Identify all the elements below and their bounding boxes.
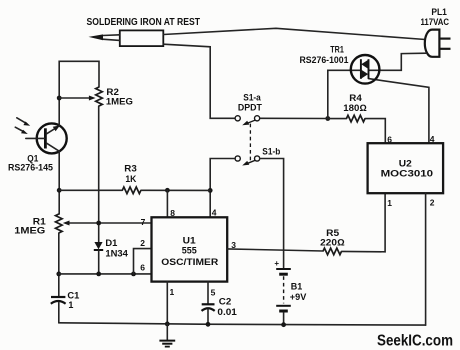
svg-text:MOC3010: MOC3010 [381, 169, 434, 179]
svg-text:C2: C2 [219, 296, 232, 306]
svg-text:2: 2 [430, 198, 435, 208]
svg-text:RS276-1001: RS276-1001 [300, 55, 349, 65]
svg-text:R4: R4 [349, 93, 362, 103]
wire: Q1 top to R2 bracket [59, 61, 99, 125]
svg-text:PL1: PL1 [431, 7, 447, 17]
capacitor C2 [202, 282, 215, 326]
switch S1-b [235, 156, 260, 166]
wire: R1 to C1 vertical [58, 233, 60, 297]
svg-text:D1: D1 [105, 238, 117, 248]
node wiper/D1 [96, 221, 101, 226]
wire: S1-a to junction [260, 117, 328, 119]
wire: pin 3 to R5 [227, 249, 323, 251]
svg-text:2: 2 [140, 238, 145, 248]
wire: iron bottom to S1-a left [163, 44, 235, 118]
node R2 wiper tap [57, 96, 62, 101]
light arrow 2 [15, 127, 27, 134]
wire: bottom ground rail [59, 323, 426, 325]
resistor R2 [96, 87, 103, 106]
ground [159, 324, 175, 347]
svg-text:+: + [274, 259, 279, 268]
wire: R2/D1 vertical [98, 106, 100, 242]
wire: pin 8 drop [166, 190, 168, 217]
resistor R5 [323, 193, 385, 255]
svg-text:8: 8 [170, 208, 175, 218]
plug PL1 [425, 30, 451, 57]
dashed gang link S1 [249, 124, 251, 163]
wire: TR1 gate to U2 pin 4 [369, 79, 429, 144]
svg-text:1: 1 [170, 287, 175, 297]
svg-text:+9V: +9V [290, 292, 307, 302]
svg-text:1: 1 [68, 300, 73, 310]
R2 wiper arrow [59, 96, 95, 101]
resistor R4 [328, 115, 386, 143]
resistor R1 [56, 214, 63, 233]
wire: U1 pin 1 down [166, 282, 168, 324]
svg-text:R3: R3 [124, 163, 137, 173]
svg-text:0.01: 0.01 [217, 307, 237, 317]
svg-text:4: 4 [430, 134, 435, 144]
triac TR1 [351, 55, 380, 84]
svg-text:R2: R2 [106, 87, 119, 97]
resistor R3 [59, 187, 210, 194]
svg-text:TR1: TR1 [330, 45, 344, 55]
svg-text:RS276-145: RS276-145 [8, 163, 53, 173]
svg-text:B1: B1 [291, 281, 303, 291]
svg-text:1MEG: 1MEG [14, 226, 45, 236]
wire: U2 pin 2 down [425, 193, 427, 325]
wire top: iron to plug PL1 [163, 28, 425, 39]
op-amp U2 MOC3010 box [368, 143, 444, 193]
svg-text:5: 5 [211, 287, 216, 297]
svg-text:6: 6 [387, 134, 392, 144]
wire: pin 6 rail [59, 273, 152, 275]
node junction S1a/R4/TR1 [325, 116, 330, 121]
wire: S1-b right to battery [260, 159, 284, 268]
svg-text:DPDT: DPDT [238, 102, 262, 112]
svg-text:220Ω: 220Ω [320, 238, 345, 248]
soldering iron body [89, 30, 164, 46]
svg-text:7: 7 [141, 217, 146, 227]
diode D1 [94, 242, 103, 274]
svg-text:OSC/TIMER: OSC/TIMER [161, 257, 219, 267]
node D1 bottom [96, 272, 101, 277]
svg-text:S1-a: S1-a [243, 92, 261, 102]
node battery bottom [281, 322, 286, 327]
wire: S1-b left to U1 pin 4 [210, 159, 235, 218]
wire: TR1 MT2 lead [328, 70, 361, 118]
node pin2 drop [131, 272, 136, 277]
node R3/S1b/pin4 [208, 188, 213, 193]
wire: TR1 MT1 to plug [369, 53, 427, 70]
svg-text:6: 6 [140, 262, 145, 272]
svg-text:U1: U1 [183, 235, 196, 245]
switch S1-a [235, 116, 260, 126]
node pin6 rail left [56, 272, 61, 277]
node pin1/ground [165, 322, 170, 327]
svg-text:S1-b: S1-b [262, 146, 280, 156]
svg-text:555: 555 [182, 246, 197, 256]
wire: pin 2 link [134, 249, 152, 274]
svg-text:4: 4 [212, 207, 217, 217]
capacitor C1 [51, 297, 66, 323]
svg-text:1MEG: 1MEG [106, 97, 133, 107]
phototransistor Q1 [26, 123, 67, 153]
battery B1 [276, 269, 291, 325]
node C2 bottom [206, 322, 211, 327]
svg-text:180Ω: 180Ω [343, 103, 367, 113]
svg-text:U2: U2 [399, 158, 412, 168]
op-amp U1 555 box [152, 217, 228, 281]
svg-text:117VAC: 117VAC [421, 17, 450, 27]
node pin8 top [165, 188, 170, 193]
svg-text:C1: C1 [67, 291, 79, 301]
svg-text:R5: R5 [326, 228, 339, 238]
R1 wiper arrow / wire to pin 7 [63, 221, 152, 226]
svg-text:1N34: 1N34 [105, 248, 128, 258]
svg-text:1: 1 [387, 198, 392, 208]
svg-text:SeekIC.com: SeekIC.com [377, 333, 453, 350]
wire: Q1 bottom vertical [58, 151, 60, 214]
light arrow 1 [17, 118, 30, 126]
svg-text:1K: 1K [125, 174, 136, 184]
node R3 left [57, 188, 62, 193]
svg-text:SOLDERING IRON AT REST: SOLDERING IRON AT REST [87, 16, 201, 28]
